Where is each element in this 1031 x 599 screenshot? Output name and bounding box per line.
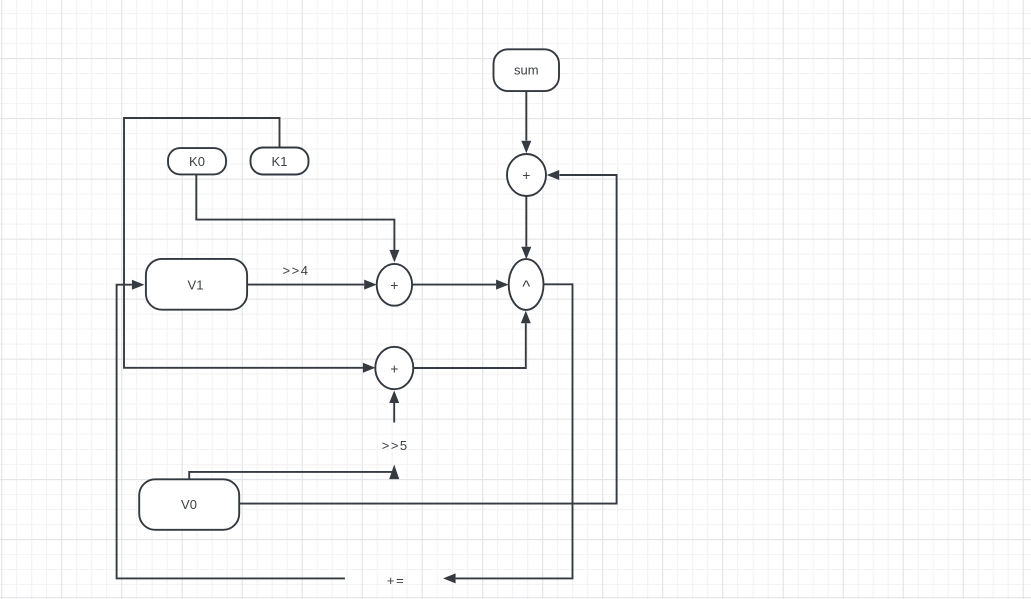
svg-text:>>4: >>4	[283, 263, 310, 278]
wire K0 to adder A2	[196, 174, 394, 250]
arrowhead into V1 left	[132, 280, 145, 290]
wire V0 to adder A1 (right loop)	[239, 175, 616, 504]
node sum	[494, 49, 560, 91]
wire adder A1 to xor	[525, 196, 527, 247]
node K1	[251, 148, 309, 175]
wire xor to plus-equal label	[456, 284, 573, 578]
svg-text:^: ^	[522, 277, 530, 296]
adder A1 circle	[507, 154, 546, 196]
svg-text:V1: V1	[188, 277, 204, 292]
arrowhead into xor top	[521, 247, 531, 260]
svg-text:>>5: >>5	[382, 438, 409, 453]
node V0	[139, 479, 239, 530]
node K0	[168, 148, 226, 174]
wire sum to adder A1	[525, 91, 527, 141]
arrowhead into adder A1 right	[547, 170, 560, 180]
wire adder A2 to xor	[412, 284, 496, 286]
wire adder A3 to xor	[413, 323, 526, 368]
svg-text:sum: sum	[514, 63, 539, 78]
arrowhead into xor bottom	[521, 311, 531, 324]
arrowhead into xor left	[496, 280, 509, 290]
arrowhead into adder A1 top	[521, 141, 531, 154]
wire plus-equal label to V1	[117, 285, 345, 579]
wire V0 to shift5 label	[189, 472, 394, 479]
wire shift5 label to adder A3	[393, 403, 395, 423]
xor ellipse	[509, 259, 544, 310]
arrowhead into adder A2 top	[389, 250, 399, 263]
arrowhead into adder A3 left	[363, 363, 376, 373]
svg-text:+: +	[390, 277, 398, 293]
wire V1 to adder A2	[247, 284, 364, 286]
node V1	[146, 259, 247, 310]
arrowhead into plus-equal label	[443, 573, 456, 583]
svg-text:K1: K1	[272, 154, 288, 169]
adder A2 circle	[377, 264, 412, 306]
svg-text:+: +	[390, 360, 398, 376]
arrowhead into adder A2 left	[364, 280, 377, 290]
svg-text:K0: K0	[189, 154, 205, 169]
svg-text:V0: V0	[181, 497, 197, 512]
svg-text:+: +	[522, 167, 530, 183]
arrowhead into adder A3 bottom	[389, 391, 399, 404]
arrowhead into shift5 label	[389, 465, 399, 480]
svg-text:+=: +=	[387, 573, 406, 588]
adder A3 circle	[375, 347, 413, 389]
wire K1 to adder A3 (left loop)	[124, 118, 363, 368]
